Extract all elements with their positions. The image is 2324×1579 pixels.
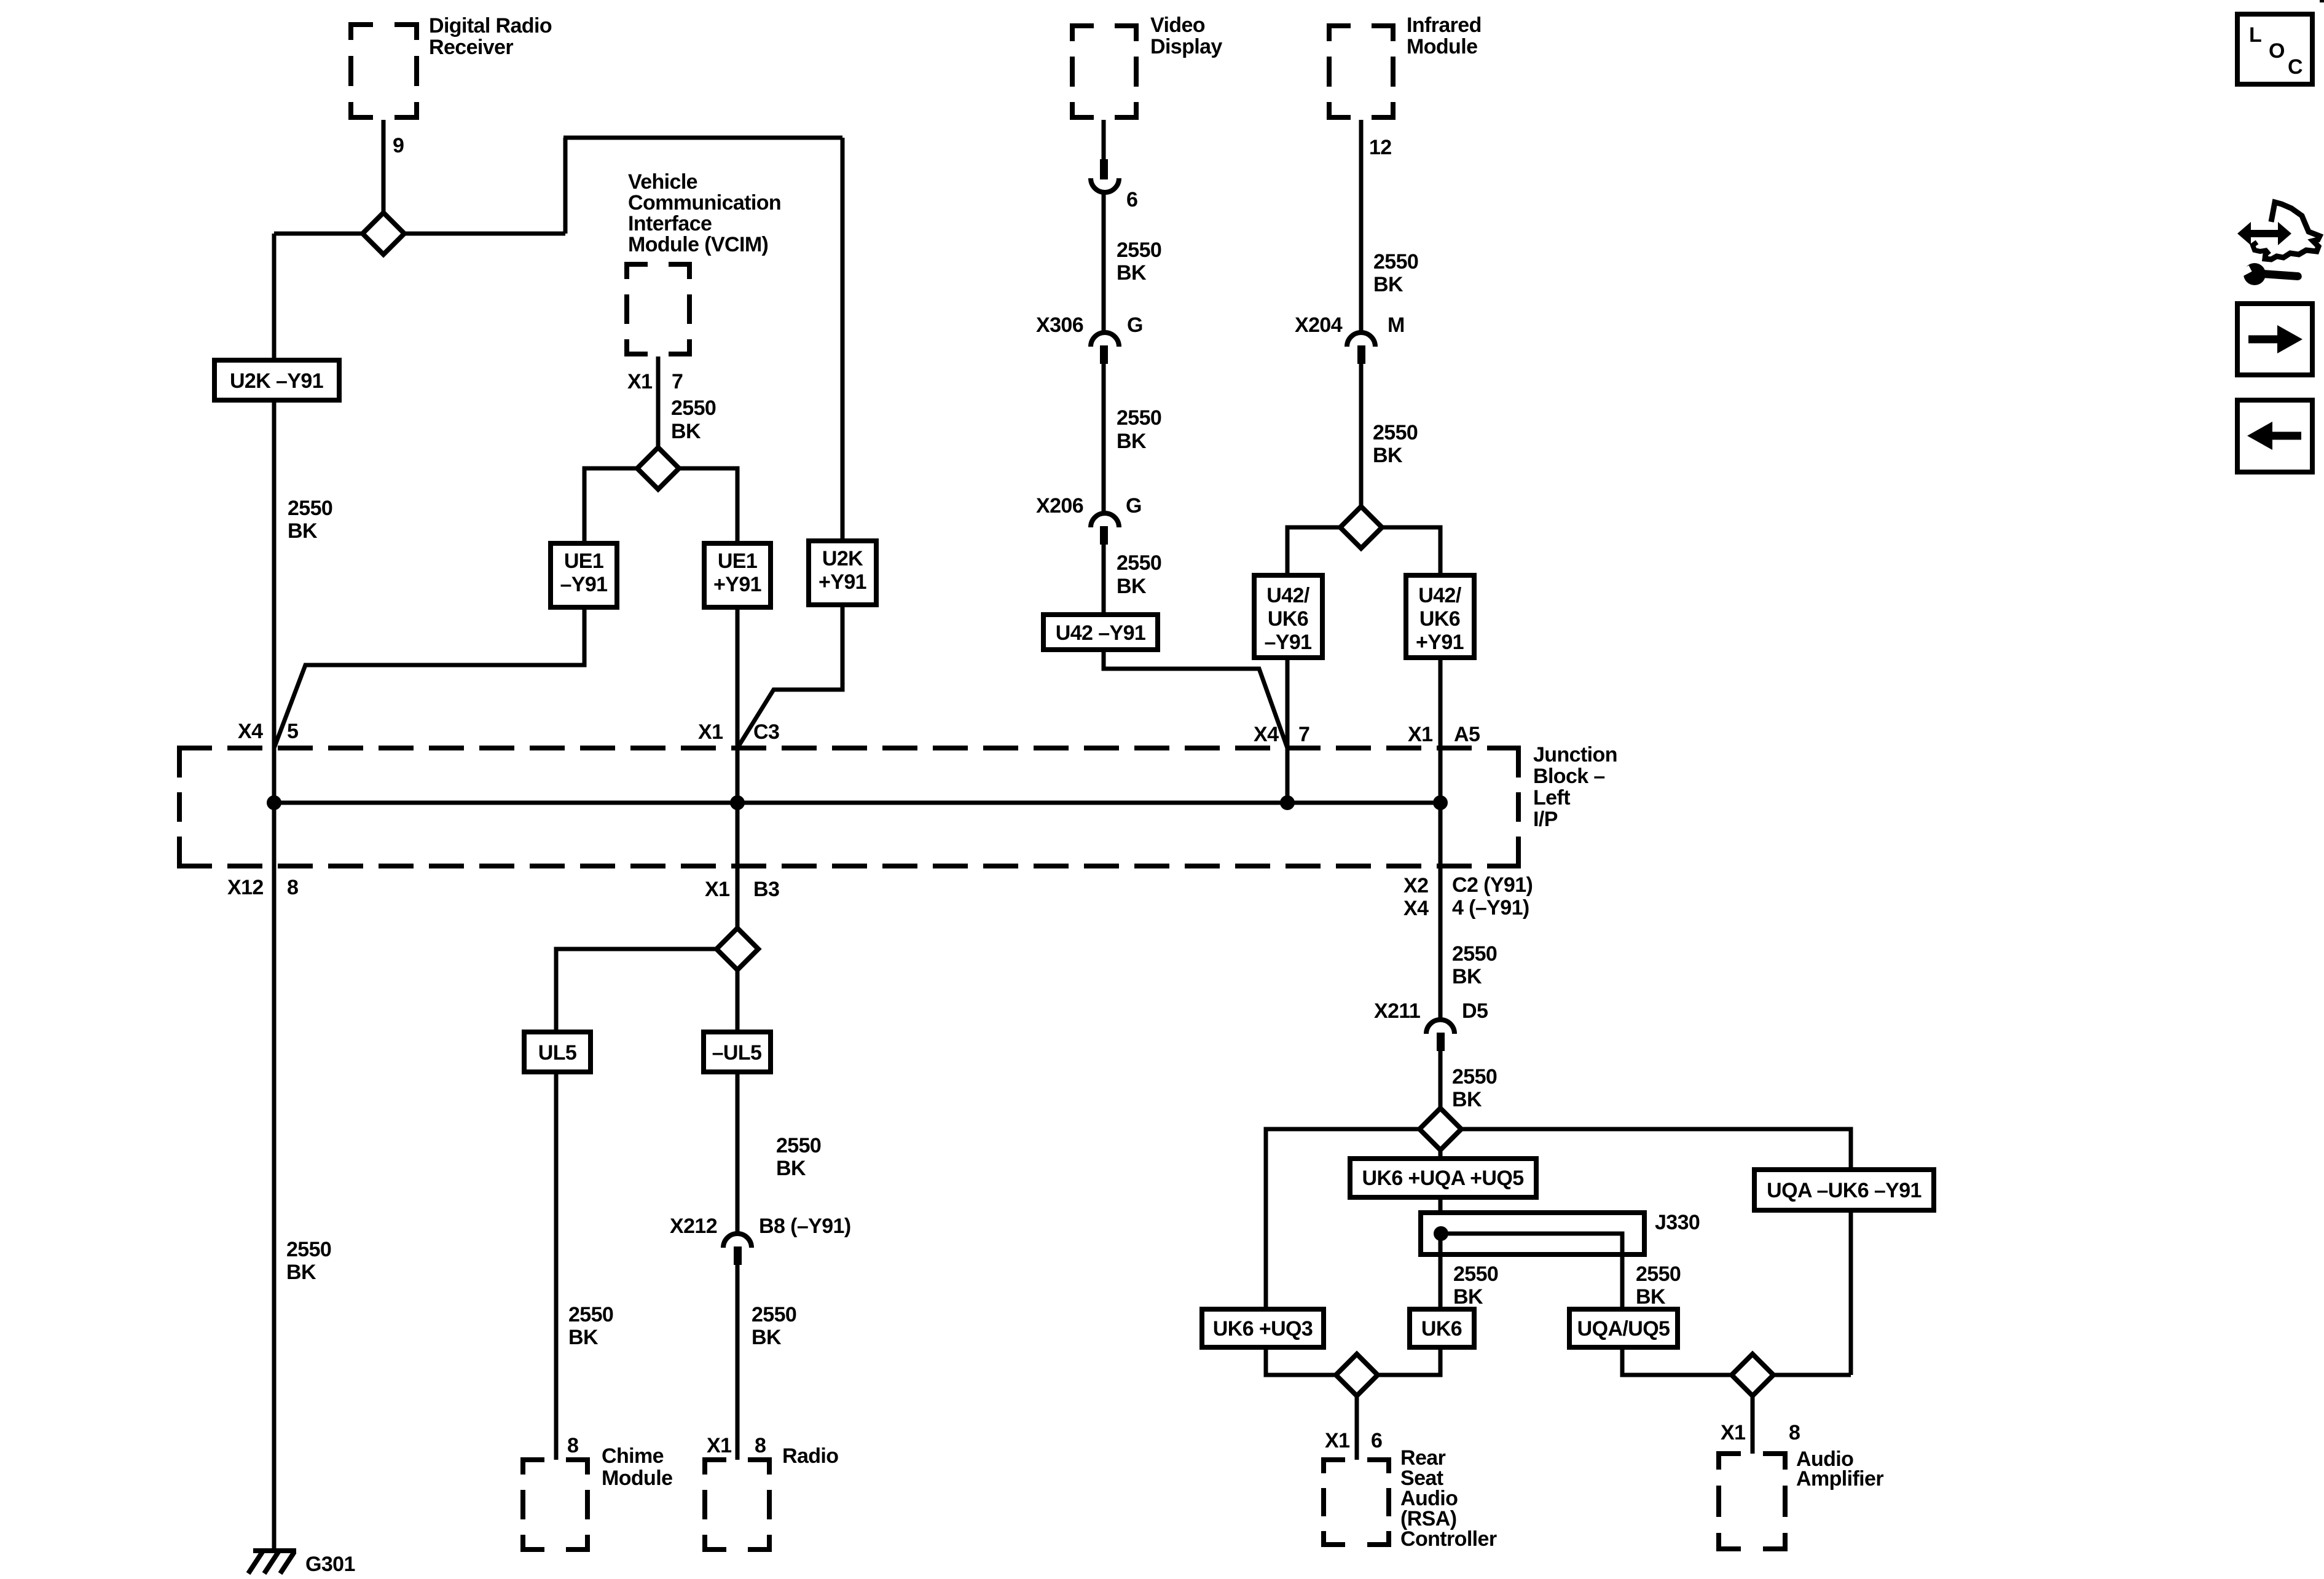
- label X206 G: [1036, 494, 1142, 518]
- svg-text:UK6 +UQA +UQ5: UK6 +UQA +UQ5: [1362, 1167, 1523, 1190]
- junction entry label X1 A5: [1408, 723, 1480, 746]
- component box UK6 +UQ3: [1202, 1309, 1324, 1347]
- label Audio Amplifier: [1796, 1447, 1883, 1490]
- svg-text:2550: 2550: [1452, 942, 1497, 966]
- svg-text:2550: 2550: [1452, 1065, 1497, 1089]
- wire splice S5 left rail to UK6 +UQ3 riser: [1266, 1129, 1421, 1312]
- splice diamond S3: [1340, 506, 1382, 548]
- svg-text:2550: 2550: [288, 497, 332, 520]
- svg-text:–Y91: –Y91: [560, 573, 607, 596]
- svg-text:UE1: UE1: [564, 549, 603, 573]
- svg-text:Block –: Block –: [1533, 765, 1605, 788]
- svg-text:J330: J330: [1655, 1211, 1700, 1234]
- svg-text:BK: BK: [776, 1157, 806, 1180]
- svg-text:BK: BK: [1373, 444, 1403, 467]
- svg-text:O: O: [2269, 39, 2285, 63]
- wire VCIM X1 pin 7 down to splice S2: [656, 356, 661, 449]
- svg-text:X4: X4: [1254, 723, 1279, 746]
- component box U42 -Y91: [1043, 615, 1158, 650]
- svg-text:BK: BK: [286, 1261, 316, 1284]
- component Digital Radio Receiver (dashed box): [348, 22, 419, 120]
- component box UE1 -Y91: [551, 543, 617, 607]
- wire riser up to top rail: [563, 138, 568, 234]
- label X211 D5: [1374, 999, 1488, 1023]
- svg-text:X1: X1: [707, 1434, 731, 1457]
- svg-text:8: 8: [1789, 1421, 1800, 1444]
- svg-text:M: M: [1388, 313, 1405, 337]
- svg-text:Left: Left: [1533, 786, 1570, 809]
- page corner tick mark: [2320, 0, 2324, 2]
- svg-text:2550: 2550: [1636, 1262, 1681, 1286]
- svg-text:BK: BK: [671, 420, 701, 443]
- svg-text:2550: 2550: [286, 1238, 331, 1261]
- svg-text:7: 7: [1298, 723, 1309, 746]
- svg-text:X4: X4: [238, 720, 263, 743]
- svg-text:U42 –Y91: U42 –Y91: [1056, 621, 1145, 645]
- label Infrared Module: [1407, 14, 1482, 58]
- svg-text:Module: Module: [602, 1467, 672, 1490]
- pin label X1 8 (Audio Amplifier): [1721, 1421, 1800, 1444]
- connector terminal pin 6 (pin into cup): [1091, 159, 1119, 192]
- wire X306 to connector X206: [1102, 364, 1106, 514]
- component box UK6: [1410, 1309, 1474, 1347]
- wire junction X12 pin 8 down to ground G301: [272, 803, 277, 1551]
- component box U2K +Y91: [809, 541, 876, 605]
- wire splice S3 right arm down to U42/UK6 +Y91 box: [1381, 527, 1440, 578]
- wire splice S7 bottom to Audio Amplifier: [1751, 1395, 1755, 1454]
- component box U42/UK6 -Y91: [1254, 575, 1322, 658]
- wire label 2550 BK (VCIM): [671, 396, 716, 443]
- svg-text:Controller: Controller: [1400, 1527, 1497, 1551]
- svg-text:B3: B3: [753, 878, 779, 901]
- component Audio Amplifier (dashed box): [1716, 1451, 1788, 1551]
- svg-text:7: 7: [672, 370, 683, 393]
- junction exit label X1 B3: [705, 878, 779, 901]
- svg-text:X212: X212: [670, 1215, 717, 1238]
- wire UE1 +Y91 box down into junction X1 pin C3: [736, 607, 740, 803]
- svg-text:8: 8: [567, 1434, 578, 1457]
- svg-text:+Y91: +Y91: [713, 573, 761, 596]
- svg-text:D5: D5: [1462, 999, 1488, 1023]
- svg-text:2550: 2550: [671, 396, 716, 420]
- svg-text:BK: BK: [1452, 965, 1482, 988]
- svg-text:2550: 2550: [1117, 406, 1161, 430]
- wire junction X2/X4 exit down to connector X211: [1439, 803, 1443, 1021]
- svg-text:X1: X1: [705, 878, 729, 901]
- svg-text:–UL5: –UL5: [712, 1041, 762, 1065]
- label Rear Seat Audio (RSA) Controller: [1400, 1446, 1497, 1551]
- pin label X1 8 (radio): [707, 1434, 766, 1457]
- svg-text:Video: Video: [1150, 14, 1205, 37]
- wire UK6 +UQA +UQ5 down into splice pack J330: [1439, 1197, 1443, 1234]
- svg-text:6: 6: [1126, 188, 1137, 211]
- label Video Display: [1150, 14, 1222, 58]
- component Chime Module (dashed box): [520, 1457, 590, 1552]
- pin label X1 7: [627, 370, 683, 393]
- component box U42/UK6 +Y91: [1406, 575, 1474, 658]
- wire U2K -Y91 box down to junction block X4 pin 5: [272, 400, 277, 803]
- svg-text:2550: 2550: [1373, 421, 1418, 444]
- component box UQA -UK6 -Y91: [1754, 1170, 1934, 1210]
- wire label 2550 BK (below junction): [1452, 942, 1497, 988]
- wire U2K +Y91 box down, left, diagonal into junction X1 pin C3: [737, 605, 842, 748]
- svg-text:12: 12: [1369, 136, 1392, 159]
- component box U2K -Y91: [214, 360, 339, 400]
- splice diamond S4: [716, 928, 758, 970]
- svg-text:Communication: Communication: [628, 191, 781, 215]
- svg-text:UK6: UK6: [1268, 607, 1308, 631]
- wire label 2550 BK (video 3): [1117, 551, 1161, 598]
- wire Infrared Module pin 12 down to connector X204: [1359, 120, 1364, 334]
- wire splice S4 left arm down to UL5 box: [556, 949, 718, 1034]
- svg-text:2550: 2550: [1373, 250, 1418, 274]
- connector X211 terminal D5 (dome over pin): [1426, 1020, 1454, 1051]
- splice diamond S1: [363, 213, 404, 254]
- component box -UL5: [704, 1032, 771, 1072]
- svg-text:C: C: [2288, 55, 2302, 79]
- wire U42/UK6 +Y91 down into junction X1 pin A5: [1439, 658, 1443, 803]
- wire splice S4 bottom to -UL5 box: [736, 968, 740, 1034]
- junction block left I/P (dashed rectangle): [177, 748, 1521, 866]
- wire label 2550 BK (chime): [568, 1303, 613, 1349]
- svg-text:+Y91: +Y91: [819, 570, 866, 594]
- wire label 2550 BK (to ground): [286, 1238, 331, 1284]
- wire U42 -Y91 down, right, diagonal into junction X4 pin 7: [1104, 650, 1287, 748]
- wire UL5 down to Chime Module pin 8: [554, 1072, 559, 1460]
- svg-text:2550: 2550: [1117, 238, 1161, 262]
- svg-text:BK: BK: [1373, 273, 1403, 296]
- wire label 2550 BK (video 1): [1117, 238, 1161, 285]
- label Chime Module: [602, 1444, 672, 1490]
- wire label 2550 BK (infrared 2): [1373, 421, 1418, 467]
- label X306 G: [1036, 313, 1143, 337]
- svg-text:I/P: I/P: [1533, 808, 1558, 831]
- ground symbol G301: [248, 1551, 296, 1573]
- svg-text:UK6: UK6: [1421, 1317, 1462, 1341]
- svg-text:UE1: UE1: [718, 549, 757, 573]
- wire J330 left leg down to UK6 box: [1439, 1234, 1443, 1312]
- label Digital Radio Receiver: [429, 14, 552, 59]
- wire Video Display down to terminal pin 6: [1102, 120, 1106, 161]
- legend LOC box: [2237, 14, 2312, 84]
- svg-text:Infrared: Infrared: [1407, 14, 1482, 37]
- wire splice S5 right rail to UQA -UK6 -Y91 riser: [1460, 1129, 1851, 1375]
- svg-text:Vehicle: Vehicle: [628, 170, 697, 194]
- svg-text:BK: BK: [1117, 430, 1147, 453]
- svg-text:UK6: UK6: [1419, 607, 1460, 631]
- component box UQA/UQ5: [1569, 1309, 1678, 1347]
- connector X204 terminal M (dome over pin): [1347, 333, 1375, 364]
- component Infrared Module (dashed box): [1327, 23, 1396, 120]
- wire Digital Radio Receiver pin 9 down to splice S1: [382, 120, 386, 215]
- wire U42/UK6 -Y91 down into junction X4 pin 7: [1286, 658, 1290, 803]
- wire label 2550 BK (infrared 1): [1373, 250, 1418, 296]
- component Radio (dashed box): [702, 1457, 772, 1552]
- svg-text:BK: BK: [288, 519, 318, 543]
- svg-text:X211: X211: [1374, 999, 1420, 1023]
- svg-text:X204: X204: [1295, 313, 1343, 337]
- wire label 2550 BK (video 2): [1117, 406, 1161, 453]
- svg-text:BK: BK: [1452, 1088, 1482, 1111]
- wire junction X1 pin B3 down to splice S4: [736, 803, 740, 930]
- svg-text:C2 (Y91): C2 (Y91): [1452, 873, 1533, 897]
- svg-text:Display: Display: [1150, 35, 1222, 58]
- wire label 2550 BK (left column): [288, 497, 332, 543]
- splice pack J330 (rectangle): [1421, 1213, 1644, 1254]
- component Rear Seat Audio (RSA) Controller (dashed box): [1321, 1457, 1391, 1547]
- wire UK6 +UQ3 down and right to splice S6: [1266, 1347, 1337, 1375]
- wire drop down to U2K +Y91 box: [841, 138, 845, 543]
- legend left-arrow box: [2237, 400, 2312, 472]
- wire X212 down to Radio pin X1 8: [736, 1265, 740, 1460]
- wire X211 down to splice S5: [1439, 1051, 1443, 1109]
- component Vehicle Communication Interface Module VCIM (dashed box): [624, 262, 692, 356]
- junction dot at X4/5: [267, 795, 281, 810]
- svg-text:U2K: U2K: [822, 547, 863, 570]
- svg-text:G301: G301: [305, 1553, 355, 1576]
- svg-text:Digital Radio: Digital Radio: [429, 14, 552, 37]
- label Junction Block - Left I/P: [1533, 743, 1617, 831]
- wire splice S2 right arm down to UE1 +Y91 box: [678, 468, 737, 545]
- svg-text:6: 6: [1371, 1429, 1382, 1452]
- junction exit label X12 8: [227, 876, 298, 899]
- wire X206 down to U42 -Y91 box: [1102, 545, 1106, 616]
- svg-text:2550: 2550: [752, 1303, 796, 1326]
- connector X206 terminal G (dome over pin): [1091, 513, 1119, 545]
- svg-text:U2K –Y91: U2K –Y91: [230, 369, 323, 393]
- pin label X1 6 (RSA): [1325, 1429, 1382, 1452]
- wire label 2550 BK (UQA/UQ5 leg): [1636, 1262, 1681, 1309]
- splice diamond S7: [1732, 1354, 1773, 1396]
- svg-text:Module: Module: [1407, 35, 1477, 58]
- label Vehicle Communication Interface Module (VCIM): [628, 170, 781, 256]
- svg-text:X306: X306: [1036, 313, 1083, 337]
- wire label 2550 BK (UK6 leg): [1453, 1262, 1498, 1309]
- svg-text:–Y91: –Y91: [1264, 631, 1311, 654]
- wire pin 6 to connector X306: [1102, 191, 1106, 334]
- svg-text:4 (–Y91): 4 (–Y91): [1452, 896, 1529, 919]
- svg-text:X1: X1: [627, 370, 652, 393]
- connector X212 terminal B8 (dome over pin): [723, 1234, 752, 1265]
- svg-text:2550: 2550: [1453, 1262, 1498, 1286]
- wire UE1 -Y91 box down, left, diagonal into junction X4 pin 5: [274, 607, 584, 748]
- svg-text:BK: BK: [568, 1326, 599, 1349]
- legend right-arrow box: [2237, 304, 2312, 375]
- wire splice S2 left arm down to UE1 -Y91 box: [584, 468, 638, 545]
- svg-text:A5: A5: [1454, 723, 1480, 746]
- wire UK6 box down and left to splice S6: [1376, 1347, 1440, 1375]
- svg-text:BK: BK: [1636, 1285, 1666, 1309]
- svg-text:2550: 2550: [1117, 551, 1161, 575]
- svg-text:U42/: U42/: [1266, 584, 1310, 607]
- wire splice S1 left arm to x=446: [274, 232, 364, 236]
- splice diamond S5: [1419, 1108, 1461, 1150]
- splice diamond S6: [1336, 1354, 1378, 1396]
- connector X306 terminal G (dome over pin): [1091, 333, 1119, 364]
- svg-text:UQA/UQ5: UQA/UQ5: [1577, 1317, 1670, 1341]
- svg-text:X206: X206: [1036, 494, 1083, 518]
- svg-text:X4: X4: [1403, 897, 1429, 920]
- svg-text:8: 8: [755, 1434, 766, 1457]
- wire splice S1 right arm to riser: [402, 232, 565, 236]
- junction dot at X4/7: [1280, 795, 1295, 810]
- wire internal bus of junction block: [274, 801, 1440, 805]
- wire UQA/UQ5 down and right to splice S7: [1622, 1347, 1733, 1375]
- junction exit label X2/X4 C2 (Y91) / 4 (-Y91): [1403, 873, 1533, 920]
- legend diagnostic icon (double arrow, outline, wrench): [2237, 202, 2320, 285]
- svg-text:9: 9: [393, 134, 404, 157]
- junction entry label X4 7: [1254, 723, 1309, 746]
- svg-text:+Y91: +Y91: [1416, 631, 1464, 654]
- svg-text:X1: X1: [1721, 1421, 1745, 1444]
- svg-text:2550: 2550: [776, 1134, 821, 1157]
- junction dot at X1/A5: [1433, 795, 1448, 810]
- wire label 2550 BK (radio): [752, 1303, 796, 1349]
- splice diamond S2: [637, 447, 679, 489]
- wire splice S3 left arm down to U42/UK6 -Y91 box: [1287, 527, 1341, 578]
- wire splice S5 bottom to UK6 +UQA +UQ5 box: [1439, 1149, 1443, 1161]
- svg-text:Chime: Chime: [602, 1444, 664, 1468]
- component box UE1 +Y91: [704, 543, 771, 607]
- wire -UL5 down to connector X212: [736, 1072, 740, 1235]
- svg-text:Module (VCIM): Module (VCIM): [628, 233, 768, 256]
- svg-text:BK: BK: [1117, 575, 1147, 598]
- svg-text:8: 8: [287, 876, 298, 899]
- svg-text:Amplifier: Amplifier: [1796, 1467, 1883, 1490]
- wire label 2550 BK (-UL5): [776, 1134, 821, 1180]
- svg-text:U42/: U42/: [1418, 584, 1462, 607]
- svg-text:Interface: Interface: [628, 212, 712, 235]
- svg-text:UQA –UK6 –Y91: UQA –UK6 –Y91: [1767, 1179, 1922, 1202]
- svg-text:G: G: [1126, 494, 1142, 518]
- svg-text:UK6 +UQ3: UK6 +UQ3: [1213, 1317, 1313, 1341]
- svg-text:Radio: Radio: [782, 1444, 838, 1468]
- svg-text:2550: 2550: [568, 1303, 613, 1326]
- junction entry label X4 5: [238, 720, 298, 743]
- wire UQA -UK6 -Y91 riser left to splice S7: [1772, 1373, 1851, 1377]
- junction dot at X1/C3: [730, 795, 745, 810]
- wire top rail to U2K +Y91 drop: [563, 136, 842, 140]
- svg-text:L: L: [2249, 23, 2261, 47]
- svg-text:BK: BK: [752, 1326, 782, 1349]
- label X204 M: [1295, 313, 1405, 337]
- wire splice S6 bottom to RSA controller: [1355, 1395, 1359, 1460]
- svg-text:B8 (–Y91): B8 (–Y91): [759, 1215, 851, 1238]
- svg-text:X1: X1: [1325, 1429, 1349, 1452]
- component box UK6 +UQA +UQ5: [1350, 1159, 1536, 1197]
- junction entry label X1 C3: [698, 720, 779, 744]
- svg-text:X2: X2: [1403, 874, 1428, 897]
- wire J330 internal branch to right leg: [1441, 1234, 1622, 1312]
- svg-text:X1: X1: [698, 720, 723, 744]
- label X212 B8 (-Y91): [670, 1215, 851, 1238]
- svg-text:X1: X1: [1408, 723, 1432, 746]
- component Video Display (dashed box): [1070, 23, 1139, 120]
- svg-text:G: G: [1127, 313, 1143, 337]
- svg-text:UL5: UL5: [538, 1041, 576, 1065]
- svg-text:X12: X12: [227, 876, 264, 899]
- component box UL5: [524, 1032, 591, 1072]
- wire down from left arm to U2K -Y91 box: [272, 234, 277, 362]
- svg-text:BK: BK: [1117, 261, 1147, 285]
- svg-text:BK: BK: [1453, 1285, 1483, 1309]
- junction dot inside J330: [1434, 1226, 1448, 1241]
- wire label 2550 BK (above S5): [1452, 1065, 1497, 1111]
- svg-text:5: 5: [287, 720, 298, 743]
- svg-text:C3: C3: [753, 720, 779, 744]
- svg-text:Receiver: Receiver: [429, 36, 513, 59]
- wire X204 down to splice S3: [1359, 364, 1364, 508]
- svg-text:Junction: Junction: [1533, 743, 1617, 766]
